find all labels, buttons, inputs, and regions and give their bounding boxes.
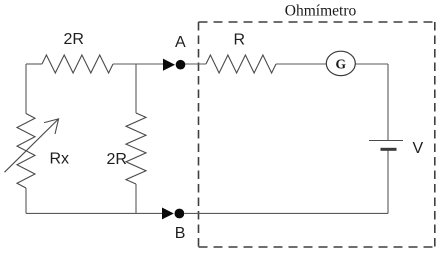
svg-text:V: V: [413, 140, 424, 157]
svg-text:Ohmímetro: Ohmímetro: [285, 3, 357, 20]
svg-text:A: A: [175, 34, 186, 51]
svg-text:2R: 2R: [107, 151, 127, 168]
svg-text:G: G: [336, 57, 347, 72]
svg-text:B: B: [175, 225, 186, 242]
svg-text:2R: 2R: [64, 31, 84, 48]
svg-text:R: R: [234, 32, 246, 49]
svg-text:Rx: Rx: [50, 151, 70, 168]
